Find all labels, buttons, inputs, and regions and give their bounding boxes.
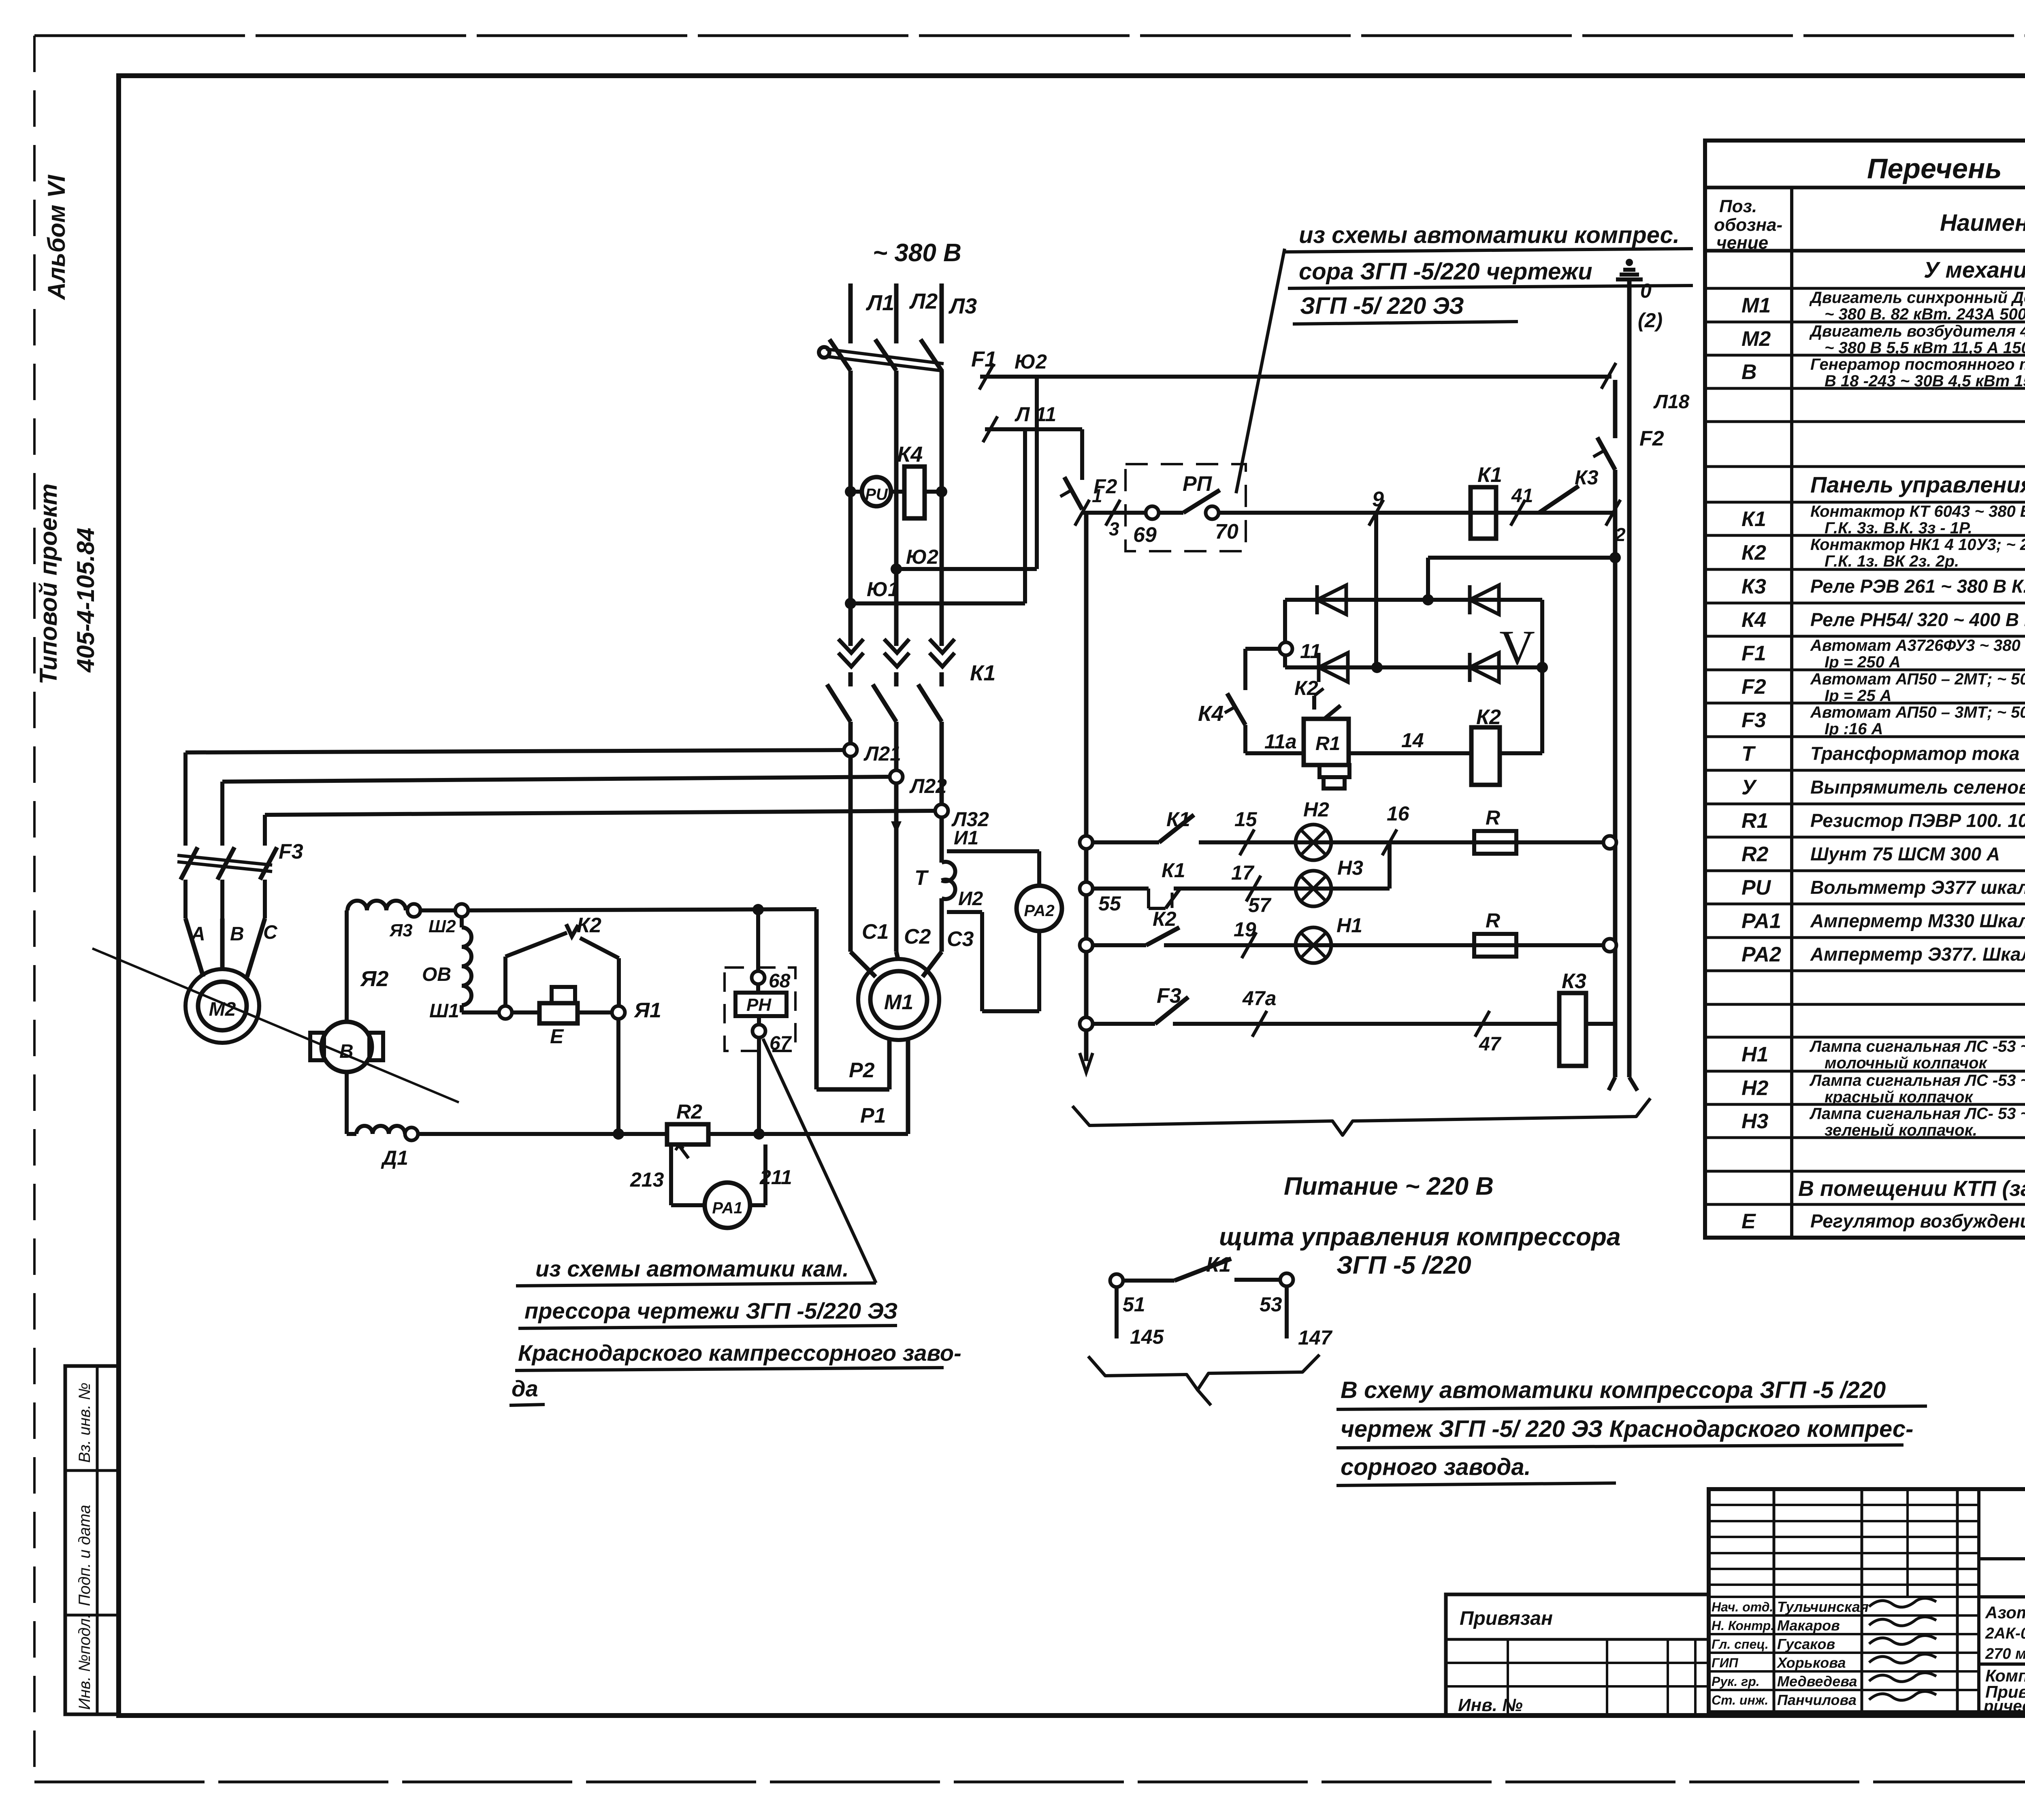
svg-text:Генератор постоянного тока: Генератор постоянного тока: [1810, 356, 2025, 373]
svg-text:R2: R2: [1742, 843, 1769, 866]
svg-text:Гл. спец.: Гл. спец.: [1712, 1637, 1769, 1652]
svg-text:Л2: Л2: [909, 289, 938, 313]
svg-text:F3: F3: [1742, 709, 1766, 732]
breaker F3 three poles: [177, 752, 303, 919]
svg-text:51: 51: [1123, 1293, 1145, 1316]
svg-text:213: 213: [630, 1168, 664, 1191]
svg-text:В помещении КТП (за панель: В помещении КТП (за панелью управления): [1798, 1176, 2025, 1201]
motor M2: [185, 969, 259, 1043]
svg-text:К2: К2: [577, 914, 601, 937]
relay РН in dashed box with 68/67: [725, 909, 795, 1134]
svg-text:0: 0: [1640, 279, 1652, 302]
svg-text:Гусаков: Гусаков: [1777, 1636, 1835, 1652]
svg-text:Трансформатор тока ТК20: Трансформатор тока ТК20 400 /5А: [1810, 743, 2025, 764]
main contacts K1 on columns: [827, 661, 995, 722]
svg-text:Л22: Л22: [909, 775, 947, 797]
svg-text:Медведева: Медведева: [1777, 1673, 1857, 1690]
svg-text:К3: К3: [1575, 466, 1599, 489]
relay contact РП (69-70) in dashed box: [1125, 464, 1246, 551]
svg-text:F2: F2: [1742, 675, 1766, 699]
svg-text:Азотно-кислородная станция: Азотно-кислородная станция: [1985, 1603, 2025, 1622]
svg-text:С3: С3: [947, 927, 974, 951]
wire Л22: [222, 770, 947, 797]
svg-text:Макаров: Макаров: [1777, 1617, 1840, 1634]
svg-text:РU: РU: [865, 486, 888, 503]
svg-text:Панчилова: Панчилова: [1777, 1692, 1857, 1708]
wire Л11: [983, 403, 1082, 480]
lamp row 2: 55, K1, 17/57, H3: [1080, 842, 1390, 916]
svg-text:из схемы автоматики компр: из схемы автоматики компрес.: [1299, 222, 1680, 248]
svg-text:К2: К2: [1153, 908, 1177, 930]
control line node 1 / 3: [1075, 485, 1149, 539]
left control bus: [1080, 513, 1093, 1072]
svg-text:Регулятор возбуждения РЗВ: Регулятор возбуждения РЗВ -11БУ3: [1810, 1210, 2025, 1232]
svg-text:ЗГП -5/ 220 ЭЗ: ЗГП -5/ 220 ЭЗ: [1300, 293, 1464, 319]
svg-text:РА2: РА2: [1024, 902, 1054, 920]
svg-text:R1: R1: [1742, 809, 1768, 833]
svg-text:У механизма.: У механизма.: [1924, 257, 2025, 283]
row 4: F3, 47a, 47, K3 coil: [1080, 970, 1615, 1066]
svg-text:V: V: [1499, 620, 1535, 675]
svg-text:Поз.: Поз.: [1719, 196, 1757, 216]
svg-text:С2: С2: [904, 925, 931, 948]
stator leads C1 C2 C3: [850, 920, 974, 977]
svg-text:К1: К1: [1206, 1253, 1231, 1277]
text: Питание ~220 В: [1219, 1172, 1620, 1279]
svg-text:Н2: Н2: [1303, 798, 1329, 821]
test point 41: [1511, 485, 1533, 526]
disconnect point Л18: [1601, 363, 1690, 413]
svg-text:405-4-105.84: 405-4-105.84: [72, 528, 99, 673]
wire И1: [947, 827, 1039, 886]
svg-text:~ 380 В. 82 кВт. 243А 50: ~ 380 В. 82 кВт. 243А 500 об/ мин.: [1825, 305, 2025, 323]
svg-text:РН: РН: [746, 995, 772, 1015]
svg-text:К2: К2: [1294, 677, 1318, 699]
excitation regulator E: [512, 987, 612, 1048]
svg-text:Нач. отд.: Нач. отд.: [1712, 1600, 1773, 1614]
svg-text:Р2: Р2: [849, 1059, 875, 1082]
svg-text:Д1: Д1: [381, 1147, 408, 1169]
svg-text:Питание ~ 220 В: Питание ~ 220 В: [1284, 1172, 1494, 1200]
svg-text:11а: 11а: [1264, 730, 1297, 753]
ground symbol 0(2): [1616, 259, 1663, 332]
svg-text:Г.К. 3з. В.К. 3з - 1Р.: Г.К. 3з. В.К. 3з - 1Р.: [1825, 519, 1972, 537]
svg-text:~ 380 В 5,5 кВт 11,5 А: ~ 380 В 5,5 кВт 11,5 А 1500 об /мин: [1825, 339, 2025, 357]
svg-text:В схему автоматики компре: В схему автоматики компрессора ЗГП -5 /2…: [1341, 1377, 1886, 1403]
svg-text:Ю2: Ю2: [1015, 350, 1047, 373]
svg-text:Типовой проект: Типовой проект: [35, 484, 62, 684]
svg-text:15: 15: [1234, 808, 1258, 831]
svg-text:да: да: [512, 1376, 538, 1401]
svg-text:В: В: [1742, 360, 1757, 384]
breaker F2 (control feed): [1060, 475, 1117, 509]
text: из схемы автоматики компрес- (top): [1285, 222, 1693, 324]
svg-text:Р1: Р1: [860, 1104, 886, 1127]
svg-text:РU: РU: [1742, 876, 1771, 899]
breaker F2 on right bus: [1593, 427, 1664, 470]
node and bypass contact K2 over regulator: [499, 914, 619, 1019]
svg-text:зеленый колпачок.: зеленый колпачок.: [1825, 1121, 1977, 1139]
svg-text:Н1: Н1: [1336, 914, 1362, 937]
svg-text:Резистор ПЭВР 100. 1000 ом;: Резистор ПЭВР 100. 1000 ом; Rуст = 500 О…: [1810, 810, 2025, 831]
svg-text:47а: 47а: [1242, 987, 1276, 1010]
svg-text:19: 19: [1234, 918, 1256, 941]
wire И2 loop: [947, 888, 1039, 1011]
svg-text:Шунт 75 ШСМ 300 А: Шунт 75 ШСМ 300 А: [1810, 844, 2000, 865]
svg-text:щита управления компрессо: щита управления компрессора: [1219, 1223, 1620, 1251]
svg-text:К1: К1: [1742, 507, 1766, 531]
svg-text:Краснодарского кампрессорного: Краснодарского кампрессорного заво-: [518, 1340, 961, 1366]
leader from 67 to note: [763, 1039, 876, 1283]
stamp strip (Инв.№подл / Подп. и дата / Вз. инв. №): [65, 1366, 119, 1714]
wire Ю1: [845, 429, 1025, 609]
svg-text:9: 9: [1372, 488, 1384, 511]
svg-text:Н3: Н3: [1742, 1110, 1769, 1133]
svg-text:из схемы автоматики кам.: из схемы автоматики кам.: [535, 1256, 849, 1281]
svg-text:Инв. №подл.: Инв. №подл.: [76, 1614, 94, 1710]
svg-text:Привязан: Привязан: [1460, 1608, 1553, 1629]
svg-text:Лампа сигнальная ЛС -53: Лампа сигнальная ЛС -53 ~ 380 В;: [1809, 1038, 2025, 1055]
resistor R1 with K2 aux contact: [1245, 677, 1471, 789]
wire Л18/F2 right bus: [1609, 380, 1615, 1090]
text: из схемы автоматики кам. (bottom left): [509, 1256, 961, 1405]
svg-text:Л 11: Л 11: [1015, 403, 1056, 426]
svg-text:Ш2: Ш2: [428, 916, 456, 936]
svg-text:Вольтметр Э377 шкала 0 ÷: Вольтметр Э377 шкала 0 ÷ 500 В: [1810, 877, 2025, 898]
svg-text:ЗГП -5 /220: ЗГП -5 /220: [1336, 1251, 1471, 1279]
svg-text:Двигатель возбудителя 4А 11: Двигатель возбудителя 4А 112 М 4У3: [1809, 322, 2025, 340]
svg-text:Л18: Л18: [1653, 391, 1690, 413]
svg-text:Н2: Н2: [1742, 1076, 1769, 1100]
svg-text:Г.К. 1з. ВК 2з. 2р.: Г.К. 1з. ВК 2з. 2р.: [1825, 552, 1959, 570]
svg-text:К3: К3: [1562, 970, 1586, 993]
svg-text:РА1: РА1: [1742, 910, 1781, 933]
relay coil K4: [897, 442, 947, 518]
title block description cells: [1979, 1597, 2025, 1715]
node 2: [1606, 500, 1626, 545]
svg-text:Подп. и дата: Подп. и дата: [76, 1505, 94, 1606]
svg-text:К3: К3: [1742, 575, 1766, 599]
svg-text:Н1: Н1: [1742, 1043, 1768, 1066]
svg-text:F3: F3: [279, 840, 303, 863]
node Я1: [612, 999, 661, 1134]
exciter generator B: [310, 1022, 383, 1072]
rotor leads P2 P1: [816, 909, 908, 1134]
svg-text:РП: РП: [1183, 472, 1213, 496]
wire 9 vertical: [1374, 513, 1378, 667]
svg-text:F1: F1: [1742, 642, 1766, 665]
svg-text:Автомат АП50 – 3МТ; ~ 500: Автомат АП50 – 3МТ; ~ 500 В: [1810, 703, 2025, 721]
wire Л32: [265, 804, 989, 831]
attachment mini-table (Привязан / Инв.№): [1446, 1594, 1709, 1715]
svg-text:147: 147: [1298, 1326, 1333, 1349]
svg-text:Вз. инв. №: Вз. инв. №: [76, 1383, 94, 1463]
svg-text:Е: Е: [1742, 1210, 1756, 1233]
svg-text:Наименование: Наименование: [1940, 210, 2025, 236]
svg-text:Перечень: Перечень: [1867, 153, 2002, 184]
svg-text:53: 53: [1260, 1293, 1282, 1316]
svg-text:Л1: Л1: [865, 291, 894, 315]
wire from node2 area down to rectifier top: [1428, 552, 1621, 600]
svg-text:Автомат АП50 – 2МТ; ~ 500: Автомат АП50 – 2МТ; ~ 500 В: [1810, 670, 2025, 688]
motor M1: [858, 959, 939, 1040]
bracket under 145/147: [1088, 1355, 1319, 1405]
svg-text:М2: М2: [1742, 327, 1771, 351]
svg-text:57: 57: [1248, 894, 1272, 916]
wire Л21: [185, 742, 901, 765]
relay coil K2: [1471, 705, 1542, 785]
ammeter РА1 tap: [630, 1144, 792, 1228]
svg-text:Контактор НК1 4 10У3; ~ 22: Контактор НК1 4 10У3; ~ 220В: [1810, 536, 2025, 554]
flow arrow on Л2: [891, 821, 902, 833]
svg-text:С1: С1: [862, 920, 889, 944]
wire Л2 column: [894, 283, 899, 952]
svg-text:В: В: [339, 1041, 354, 1062]
wire Л3 column: [940, 283, 944, 952]
svg-text:Амперметр Э377. Шкала 80: Амперметр Э377. Шкала 80 ÷ 400 ÷ 2500А: [1810, 944, 2025, 965]
svg-text:К2: К2: [1476, 705, 1501, 729]
current transformer T: [914, 862, 955, 899]
svg-text:70: 70: [1215, 520, 1238, 543]
svg-text:Л21: Л21: [863, 742, 901, 765]
svg-text:молочный колпачок: молочный колпачок: [1825, 1054, 1988, 1072]
svg-text:Ю1: Ю1: [867, 578, 899, 601]
svg-text:Реле РН54/ 320 ~ 400 В К.: Реле РН54/ 320 ~ 400 В К.1з. 1р.: [1810, 609, 2025, 630]
svg-text:67: 67: [769, 1033, 792, 1054]
shunt R2: [667, 1100, 708, 1158]
svg-text:Т: Т: [1742, 742, 1756, 766]
svg-text:М1: М1: [884, 991, 913, 1014]
contact K4 branch: [1198, 649, 1280, 753]
svg-text:сора ЗГП -5/220 чертежи: сора ЗГП -5/220 чертежи: [1299, 258, 1592, 285]
svg-text:Я3: Я3: [389, 921, 413, 940]
svg-text:3: 3: [1109, 518, 1119, 539]
svg-text:красный колпачок: красный колпачок: [1825, 1088, 1974, 1106]
svg-text:И2: И2: [958, 888, 983, 910]
svg-text:R2: R2: [676, 1100, 702, 1123]
svg-text:Инв. №: Инв. №: [1458, 1695, 1523, 1715]
svg-text:Автомат А3726ФУ3 ~ 380 В: Автомат А3726ФУ3 ~ 380 В: [1810, 637, 2025, 654]
leads into M2: [185, 919, 265, 977]
breaker F1 (three poles with tie bar): [819, 339, 944, 371]
svg-text:К4: К4: [897, 442, 923, 467]
svg-text:К1: К1: [970, 661, 995, 685]
svg-text:Iр :16 А: Iр :16 А: [1825, 720, 1883, 738]
svg-text:Альбом VI: Альбом VI: [43, 175, 70, 300]
svg-text:рическая принципиальная: рическая принципиальная: [1983, 1697, 2025, 1715]
contactor coil K1: [1471, 463, 1502, 539]
svg-text:Iр = 250 А: Iр = 250 А: [1825, 653, 1901, 671]
armature line Р1/Д1 bottom: [347, 1072, 908, 1169]
svg-text:Ю2: Ю2: [906, 546, 938, 568]
lamp row 1: K1, 15, H2, 16, R: [1080, 798, 1616, 860]
svg-text:Хорькова: Хорькова: [1776, 1654, 1846, 1671]
svg-text:F3: F3: [1157, 984, 1181, 1008]
svg-text:ОВ: ОВ: [422, 964, 451, 985]
wire Я2 / Я3 / Ш2 top line: [347, 901, 816, 1022]
svg-text:Панель управления ПУ7501-: Панель управления ПУ7501- 4363А: [1810, 472, 2025, 497]
svg-text:РА1: РА1: [712, 1199, 742, 1217]
svg-text:(2): (2): [1638, 309, 1663, 332]
svg-text:Выпрямитель селеновый 30ГД: Выпрямитель селеновый 30ГД 16 Я: [1810, 777, 2025, 798]
svg-text:К1: К1: [1477, 463, 1502, 487]
svg-text:К1: К1: [1162, 859, 1185, 882]
svg-text:Я1: Я1: [633, 999, 661, 1022]
svg-text:Амперметр М330 Шкала 300: Амперметр М330 Шкала 300 ÷ 0 ÷ 300 А: [1810, 910, 2025, 931]
svg-text:Я2: Я2: [360, 967, 388, 991]
svg-text:~ 380 В: ~ 380 В: [873, 239, 961, 267]
table row lines: [1705, 288, 2025, 1204]
svg-text:Т: Т: [914, 866, 929, 890]
text: В схему автоматики ...: [1336, 1377, 1927, 1485]
table header cells: [1714, 196, 2025, 253]
svg-text:К4: К4: [1742, 608, 1766, 632]
svg-text:К1: К1: [1166, 808, 1190, 831]
svg-text:Реле РЭВ 261 ~ 380 В К.: Реле РЭВ 261 ~ 380 В К. 2з.: [1810, 576, 2025, 597]
svg-text:55: 55: [1098, 892, 1121, 915]
signature rows texts: [1712, 1598, 1936, 1708]
wire Ю2 (net from Л2 to Л18 bus): [891, 350, 1611, 575]
svg-text:Рук. гр.: Рук. гр.: [1712, 1674, 1760, 1689]
switch K1 (51-53 / 145-147): [1110, 1253, 1333, 1349]
drawout plugs on Л1 Л2 Л3: [838, 639, 955, 667]
svg-text:270 м³/ч азота и 70 м³/ч кисло: 270 м³/ч азота и 70 м³/ч кислорода: [1985, 1645, 2025, 1662]
svg-text:Iр = 25 А: Iр = 25 А: [1825, 687, 1892, 705]
svg-text:2АК-0,135 производительностью: 2АК-0,135 производительностью: [1985, 1625, 2025, 1642]
svg-text:17: 17: [1231, 861, 1255, 884]
wire Л1 column: [848, 283, 853, 952]
ammeter РА2: [1017, 886, 1062, 931]
svg-text:41: 41: [1511, 485, 1533, 507]
svg-text:Н3: Н3: [1337, 857, 1363, 879]
svg-text:Двигатель синхронный Дск2-24: Двигатель синхронный Дск2-24 -124У: [1809, 289, 2025, 307]
test point 9: [1369, 488, 1384, 526]
svg-text:С: С: [263, 922, 278, 943]
svg-text:F2: F2: [1639, 427, 1664, 450]
svg-text:Е: Е: [550, 1025, 564, 1048]
svg-text:К2: К2: [1742, 541, 1766, 565]
svg-text:В: В: [230, 923, 244, 945]
svg-text:Ш1: Ш1: [429, 1000, 459, 1022]
svg-text:Ст. инж.: Ст. инж.: [1712, 1693, 1768, 1707]
lamp row 3: K2, 19, H1, R: [1080, 908, 1616, 963]
svg-text:Лампа сигнальная ЛС -53 ~: Лампа сигнальная ЛС -53 ~ 380 В: [1809, 1072, 2025, 1089]
svg-text:69: 69: [1133, 523, 1157, 547]
svg-text:прессора чертежи ЗГП -5/22: прессора чертежи ЗГП -5/220 ЭЗ: [524, 1298, 897, 1323]
svg-text:ГИП: ГИП: [1712, 1656, 1739, 1670]
svg-text:1: 1: [1092, 485, 1102, 506]
svg-text:М1: М1: [1742, 294, 1771, 318]
voltmeter PU: [845, 477, 904, 506]
selenium rectifier bridge (V): [1279, 585, 1548, 753]
title block: [1709, 1489, 2025, 1712]
svg-text:К4: К4: [1198, 701, 1224, 726]
svg-text:R1: R1: [1315, 733, 1340, 754]
svg-text:чертеж ЗГП -5/ 220 ЭЗ Крас: чертеж ЗГП -5/ 220 ЭЗ Краснодарского ком…: [1341, 1416, 1914, 1442]
control line 70 to node 2: [1218, 511, 1613, 515]
svg-text:47: 47: [1479, 1034, 1502, 1055]
svg-text:И1: И1: [954, 827, 978, 849]
svg-text:Н. Контр.: Н. Контр.: [1712, 1618, 1774, 1633]
brace: Питание 220В (feed bracket): [1072, 1098, 1650, 1135]
svg-text:чение: чение: [1716, 233, 1768, 253]
svg-text:Лампа сигнальная ЛС- 53: Лампа сигнальная ЛС- 53 ~ 380 В;: [1809, 1105, 2025, 1123]
svg-text:В 18 -243 ~ 30В 4,5 кВт: В 18 -243 ~ 30В 4,5 кВт 150 А.: [1825, 372, 2025, 390]
svg-text:РА2: РА2: [1742, 943, 1781, 966]
shaft line M2-B: [92, 948, 459, 1102]
svg-text:Л3: Л3: [948, 294, 977, 318]
svg-text:обозна-: обозна-: [1714, 215, 1782, 235]
svg-text:R: R: [1486, 909, 1500, 932]
contact K3: [1539, 466, 1599, 513]
svg-text:211: 211: [759, 1166, 792, 1189]
svg-text:2: 2: [1615, 524, 1626, 545]
parts list table frame: [1705, 141, 2025, 1238]
svg-text:сорного завода.: сорного завода.: [1341, 1454, 1531, 1480]
svg-text:Тульчинская: Тульчинская: [1777, 1598, 1869, 1615]
svg-text:145: 145: [1130, 1326, 1164, 1348]
svg-text:68: 68: [769, 970, 791, 992]
svg-text:У: У: [1742, 776, 1757, 799]
svg-text:16: 16: [1387, 802, 1410, 825]
svg-text:Контактор КТ 6043 ~ 380: Контактор КТ 6043 ~ 380 В; 400 А: [1810, 503, 2025, 520]
svg-text:R: R: [1486, 806, 1500, 829]
wire 0(2) vertical bus: [1629, 279, 1637, 1091]
leader from note to РП box: [1236, 249, 1285, 493]
shunt field coil ОВ / Ш1: [422, 916, 500, 1022]
svg-text:14: 14: [1401, 729, 1424, 752]
